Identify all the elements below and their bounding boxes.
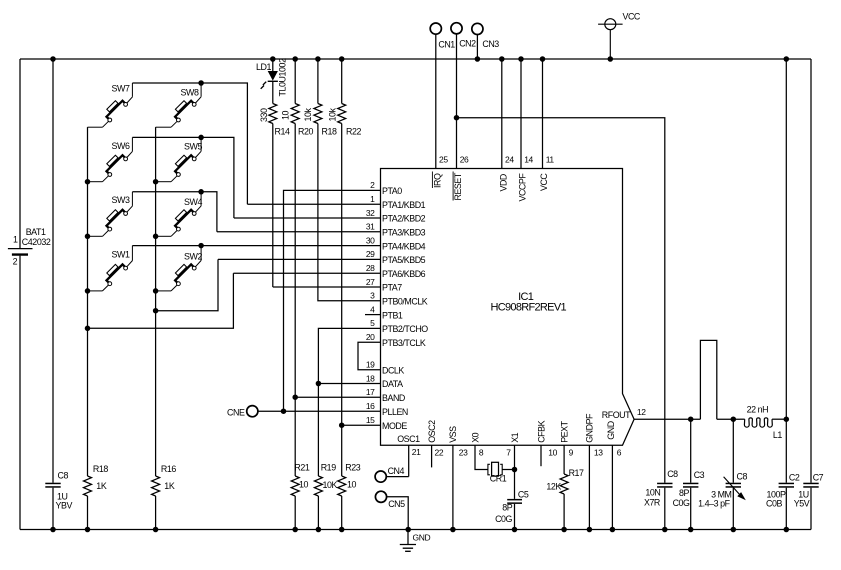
wire PTA2 stub [234,217,381,219]
ground symbol [407,530,409,545]
svg-text:SW1: SW1 [112,250,130,260]
wire X0 to crystal [475,445,488,469]
svg-text:CNE: CNE [227,408,245,418]
wire crystal to X1 [502,469,514,471]
wire RESET to C8 reset cap [457,118,665,483]
svg-text:CR1: CR1 [490,473,507,483]
svg-text:VCC: VCC [623,12,641,22]
junction top rail / VCCPF [518,56,524,62]
svg-text:R19: R19 [321,463,337,473]
junction row 1 / SW8 [198,80,204,86]
junction bottom rail / R18 [85,527,91,533]
svg-text:32: 32 [366,208,375,218]
svg-text:LD1: LD1 [256,62,272,72]
svg-text:R16: R16 [161,464,177,474]
svg-text:1.4–3 pF: 1.4–3 pF [698,499,730,509]
junction row 2 / SW5 [198,135,204,141]
switch SW2 [171,261,201,291]
capacitor C8 trimmer (3 MM 1.4-3 pF) [732,419,734,483]
switch SW7 [103,97,133,127]
wire PTB3/TCLK to DCLK bracket [358,342,381,370]
svg-text:PTB2/TCHO: PTB2/TCHO [382,324,428,334]
wire C7 to ground rail [810,488,812,530]
wire keyboard row 2 (SW6/SW5 to PTA2) [132,137,234,218]
junction top rail / LD1 [270,56,276,62]
svg-text:C3: C3 [694,470,705,480]
svg-text:31: 31 [366,222,375,232]
wire R20 to BAND node [294,124,296,398]
resistor R18 (10k pullup PTB0) [317,59,319,104]
wire PTA0 to PLLEN node [284,190,381,411]
wire R14 to PTA7 [273,286,381,288]
svg-text:11: 11 [546,155,555,165]
svg-text:1: 1 [370,194,375,204]
svg-text:27: 27 [366,277,375,287]
svg-text:C0G: C0G [673,498,690,508]
svg-text:C7: C7 [813,473,824,483]
svg-text:PTB1: PTB1 [382,310,403,320]
wire OSC2 stub [431,445,433,467]
svg-text:R14: R14 [275,127,291,137]
junction bottom rail / GNDPF [587,527,593,533]
svg-text:VCC: VCC [539,173,549,191]
svg-text:23: 23 [459,448,468,458]
svg-text:9: 9 [569,448,574,458]
wire keyboard row 4 (SW1/SW2 to PTA4) [132,245,380,247]
wire VCC rail to L1/C2 node [785,59,787,419]
junction X1 / CR1 / C5 [512,467,518,473]
switch SW8 [171,97,201,127]
svg-text:SW3: SW3 [112,195,130,205]
svg-text:R17: R17 [569,468,584,478]
resistor R22 (10k pullup MODE) [341,59,343,104]
junction bottom rail / C2 [784,527,790,533]
wire C3 to ground rail [690,488,692,530]
wire RF loop antenna [700,340,716,419]
svg-text:22 nH: 22 nH [747,405,768,415]
svg-text:25: 25 [439,155,448,165]
svg-text:C2: C2 [789,473,800,483]
svg-text:X1: X1 [510,432,520,442]
wire VCCPF stub [520,59,522,169]
junction top rail / VCC feed [784,56,790,62]
svg-text:PTA7: PTA7 [382,283,402,293]
wire PLLEN stub to CNE [258,410,380,412]
svg-text:HC908RF2REV1: HC908RF2REV1 [491,302,567,314]
svg-text:CN1: CN1 [438,40,455,50]
junction RFOUT / L1 / C2 [784,416,790,422]
junction bottom rail / trimmer [731,527,737,533]
svg-text:6: 6 [617,448,622,458]
wire VCC top rail [20,58,811,60]
wire C8 bulk branch [52,59,54,483]
wire PTB1 stub [365,314,381,316]
switch SW5 [171,151,201,181]
wire RESET to CN2 [456,34,458,169]
svg-text:SW2: SW2 [184,252,202,262]
svg-text:OSC1: OSC1 [397,434,420,444]
svg-text:20: 20 [366,332,375,342]
wire R18 to PTB0/MCLK [318,124,381,301]
svg-text:10k: 10k [327,107,337,121]
wire CN5 to ground [387,497,409,530]
supply symbol VCC [605,19,616,30]
svg-text:CN5: CN5 [388,499,405,509]
junction bottom rail / VSS [450,527,456,533]
svg-text:SW6: SW6 [112,141,130,151]
junction bottom rail / R23 [339,527,345,533]
junction top rail / VDD [499,56,505,62]
resistor R16 (1K pulldown) [152,476,160,496]
junction bottom rail / R16 [153,527,159,533]
junction left column / PTA6 branch [85,326,91,332]
junction column / SW3 [85,234,91,240]
svg-text:PTB3/TCLK: PTB3/TCLK [382,338,426,348]
switch SW3 [103,206,133,236]
resistor R23 (10 pulldown) [341,425,343,476]
wire DATA stub [318,383,380,385]
wire X1 stub [514,445,516,469]
connector CNE [247,406,258,417]
svg-text:CFBK: CFBK [536,420,546,442]
wire OSC1 stub to CN4 [408,445,410,476]
junction bottom rail / R21 [292,527,298,533]
svg-text:X0: X0 [470,432,480,442]
junction bottom rail / C5 [512,527,518,533]
capacitor C8 (10N X7R reset) [657,483,672,485]
svg-text:VDD: VDD [498,174,508,191]
junction top rail / C8 branch [50,56,56,62]
svg-text:24: 24 [505,155,514,165]
svg-text:R18: R18 [93,464,109,474]
svg-text:R21: R21 [294,463,310,473]
svg-text:DATA: DATA [382,379,403,389]
svg-text:PLLEN: PLLEN [382,407,408,417]
junction BAND / R20 / R21 [292,394,298,400]
junction RESET branch [454,115,460,121]
junction bottom rail / C3 [688,527,694,533]
svg-text:26: 26 [460,155,469,165]
switch SW4 [171,206,201,236]
svg-text:10k: 10k [303,107,313,121]
svg-text:17: 17 [366,387,375,397]
svg-text:10: 10 [281,110,291,120]
svg-text:PTA3/KBD3: PTA3/KBD3 [382,228,426,238]
svg-text:BAT1: BAT1 [26,227,46,237]
svg-text:C5: C5 [518,489,529,499]
junction top rail / R22 [339,56,345,62]
wire right edge VCC branch [810,59,812,483]
wire PTA3 stub [217,231,381,233]
junction column / SW2 [153,288,159,294]
wire R22 to MODE node [341,124,343,426]
svg-text:L1: L1 [773,430,782,440]
wire trimmer to ground rail [732,488,734,530]
trimmer arrow [724,477,741,495]
svg-text:GNDPF: GNDPF [585,413,595,443]
wire VCC stub [542,59,544,169]
junction MODE / R22 / R23 [339,422,345,428]
svg-text:C42032: C42032 [22,237,51,247]
wire C8 to ground rail [664,488,666,530]
wire VDD stub [501,59,503,169]
svg-text:CN4: CN4 [388,466,405,476]
wire switch column left (KBD row A) [87,127,89,476]
junction top rail / R20 [292,56,298,62]
junction bottom rail / C8 [662,527,668,533]
junction top rail / VCC symbol [608,56,614,62]
svg-text:1K: 1K [96,481,107,491]
wire PTA6 stub [233,272,380,274]
svg-text:OSC2: OSC2 [427,420,437,443]
wire GND pin to ground rail [611,445,613,529]
wire RFOUT net right of loop [717,418,740,420]
svg-text:PTA4/KBD4: PTA4/KBD4 [382,241,426,251]
svg-text:PTA0: PTA0 [382,186,402,196]
battery BAT1 [8,248,33,250]
svg-text:1K: 1K [164,481,175,491]
junction column / SW5 [153,179,159,185]
svg-text:2: 2 [370,180,375,190]
svg-text:10: 10 [347,480,357,490]
svg-text:SW8: SW8 [181,87,199,97]
wire GND bottom rail [20,529,811,531]
svg-text:3: 3 [370,291,375,301]
svg-text:22: 22 [435,448,444,458]
wire CN3 to VCC rail [476,35,478,59]
svg-text:DCLK: DCLK [382,366,404,376]
connector CN3 [472,23,483,34]
wire C2 to ground rail [785,488,787,530]
junction column / SW4 [153,234,159,240]
capacitor C5 (8P C0G) [507,499,522,501]
svg-text:VSS: VSS [448,426,458,443]
svg-text:21: 21 [412,447,421,457]
svg-text:7: 7 [506,448,511,458]
svg-text:TL0U1002: TL0U1002 [277,58,287,97]
svg-text:Y5V: Y5V [794,499,810,509]
svg-text:19: 19 [366,360,375,370]
switch SW1 [103,261,133,291]
connector CN5 [375,491,386,502]
junction bottom rail / C8 branch [50,527,56,533]
IC IC1 HC908RF2REV1 body [381,169,635,446]
wire PTA1 stub [247,203,380,205]
svg-text:10K: 10K [323,480,338,490]
svg-text:10N: 10N [645,487,660,497]
junction bottom rail / GND pin [610,527,616,533]
svg-text:13: 13 [594,448,603,458]
LED emission arrows [261,82,267,89]
svg-text:C8: C8 [737,471,748,481]
svg-text:8P: 8P [679,488,689,498]
svg-text:18: 18 [366,373,375,383]
switch SW6 [103,151,133,181]
junction top rail / CN3 [475,56,481,62]
wire VSS to ground rail [452,445,454,529]
svg-text:30: 30 [366,235,375,245]
svg-text:VCCPF: VCCPF [518,173,528,202]
wire PTB2/TCHO to DATA node [318,328,380,383]
junction column / SW6 [85,179,91,185]
svg-text:C8: C8 [667,469,678,479]
junction PLLEN / PTA0 branch [281,408,287,414]
wire left battery branch [19,59,21,248]
svg-text:5: 5 [370,318,375,328]
svg-text:14: 14 [524,155,533,165]
resistor R20 (10 pullup) [294,59,296,104]
connector CN4 [375,471,386,482]
svg-text:SW7: SW7 [112,83,130,93]
junction row 3 / SW4 [198,189,204,195]
junction top rail / VCC [540,56,546,62]
svg-text:16: 16 [366,401,375,411]
svg-text:PTA6/KBD6: PTA6/KBD6 [382,269,426,279]
svg-text:4: 4 [370,304,375,314]
resistor R18 (1K pulldown) [84,476,92,496]
capacitor C8 (1U YBV) [45,483,60,485]
junction RFOUT / C8 trimmer [731,416,737,422]
wire CFBK stub [540,445,542,466]
svg-text:R18: R18 [322,127,338,137]
svg-text:12K: 12K [546,481,561,491]
svg-text:8P: 8P [502,502,512,512]
wire GNDPF to ground rail [588,445,590,529]
svg-text:PTA2/KBD2: PTA2/KBD2 [382,214,426,224]
svg-text:PTA1/KBD1: PTA1/KBD1 [382,200,426,210]
capacitor C3 (8P C0G) [690,419,692,483]
junction bottom rail / R19 [316,527,322,533]
wire RFOUT net [634,418,700,420]
svg-text:GND: GND [606,421,616,439]
wire switch column right (KBD row B) [155,127,157,476]
svg-text:10: 10 [548,448,557,458]
svg-text:R23: R23 [345,463,361,473]
resistor R17 (12K PEXT) [563,445,565,474]
junction bottom rail / CN5 ground [405,527,411,533]
svg-text:MODE: MODE [382,421,407,431]
svg-text:C0B: C0B [766,499,782,509]
junction top rail / R18 [315,56,321,62]
wire IRQ to CN1 [435,34,437,168]
svg-text:X7R: X7R [644,498,660,508]
LED LD1 [272,59,274,71]
svg-text:15: 15 [366,415,375,425]
svg-text:PTB0/MCLK: PTB0/MCLK [382,297,428,307]
svg-text:SW5: SW5 [184,142,202,152]
junction bottom rail / R17 [561,527,567,533]
svg-text:YBV: YBV [56,501,73,511]
junction row 4 / SW2 [198,243,204,249]
svg-text:C0G: C0G [495,514,512,524]
inductor L1 (22 nH) [740,418,745,420]
svg-text:C8: C8 [58,471,69,481]
svg-text:RESET: RESET [453,172,463,200]
svg-text:RFOUT: RFOUT [602,410,631,420]
svg-text:10: 10 [299,480,309,490]
svg-text:8: 8 [479,448,484,458]
wire X1 to C5 [514,470,516,499]
svg-text:1: 1 [13,235,18,245]
svg-text:PEXT: PEXT [559,420,569,442]
svg-text:SW4: SW4 [184,197,202,207]
junction RFOUT / C3 [688,416,694,422]
connector CN1 [430,23,441,34]
svg-text:R22: R22 [346,127,362,137]
resistor R21 (10 pulldown) [294,397,296,476]
svg-text:12: 12 [637,407,646,417]
svg-text:GND: GND [413,533,431,543]
wire right column to PTA5 [156,259,218,310]
svg-text:2: 2 [13,257,18,267]
svg-text:330: 330 [259,108,269,122]
svg-text:IRQ: IRQ [432,173,442,188]
resistor R19 (10K pulldown DATA) [317,384,319,477]
wire keyboard row 3 (SW3/SW4 to PTA3) [132,192,217,232]
junction right column / PTA5 branch [153,308,159,314]
svg-text:R20: R20 [298,127,314,137]
resistor R14 (330) [269,104,277,124]
svg-text:CN3: CN3 [482,39,499,49]
svg-text:28: 28 [366,263,375,273]
capacitor C2 (100P C0B) [785,419,787,483]
junction column / SW1 [85,288,91,294]
svg-text:PTA5/KBD5: PTA5/KBD5 [382,255,426,265]
wire C5 to ground rail [514,504,516,530]
wire keyboard row 1 (SW7/SW8 to PTA1) [132,83,247,204]
wire BAND stub [295,396,380,398]
junction DATA / R19 [316,381,322,387]
svg-text:29: 29 [366,249,375,259]
wire PTA5 stub [218,258,381,260]
connector CN2 [451,23,462,34]
capacitor C7 (1U Y5V) [803,483,818,485]
svg-text:BAND: BAND [382,393,405,403]
wire MODE stub [342,424,381,426]
svg-text:CN2: CN2 [459,39,476,49]
wire left column to PTA6 [88,273,234,328]
crystal CR1 [488,464,490,475]
